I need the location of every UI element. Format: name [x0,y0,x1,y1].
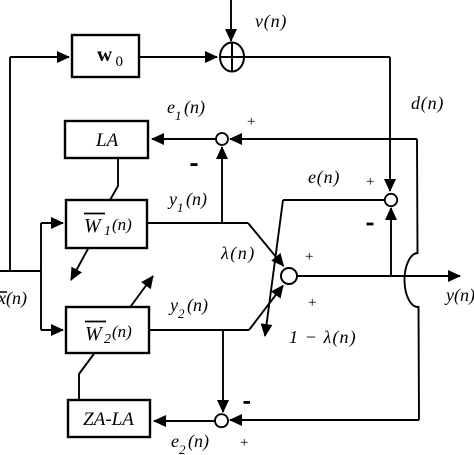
block W1 [66,200,147,248]
wire input branch vertical [40,223,42,330]
wire into W2 [41,329,63,331]
svg-text:d(n): d(n) [411,93,444,114]
svg-text:W: W [84,215,103,237]
svg-text:ZA-LA: ZA-LA [83,409,134,430]
wire y2 output [149,329,249,331]
label minus at e bottom [367,223,374,226]
svg-text:+: + [247,114,255,130]
svg-text:LA: LA [95,130,119,151]
svg-text:e2(n): e2(n) [171,431,209,455]
wire e(n) output leftwards [283,199,385,201]
wire arm lambda into combiner [248,223,284,266]
wire y1 output [147,222,248,224]
svg-text:+: + [308,295,316,311]
svg-text:y1(n): y1(n) [167,189,207,215]
combiner node [281,268,297,284]
wire d(n) vertical into e adder [389,57,391,191]
wire left vertical from w0 feed down to input line [9,57,11,271]
svg-text:+: + [305,249,313,265]
adder e1 [216,133,228,145]
wire W2 to ZA-LA connector [79,351,96,400]
wire y1 from e1 bottom [221,147,223,223]
wire input x(n) horizontal [0,270,41,272]
wire y2 junction down to e2 adder [222,330,224,412]
block ZA-LA [68,400,150,437]
block LA [65,121,148,158]
label minus at e1 [191,163,198,166]
svg-text:v(n): v(n) [255,11,287,32]
wire W2 adaptation arrow [131,276,153,306]
svg-text:x(n): x(n) [0,288,27,309]
svg-text:1: 1 [104,224,111,239]
svg-text:y2(n): y2(n) [168,295,208,321]
block W2 [66,307,149,353]
label minus at e2 [244,401,251,404]
svg-text:(n): (n) [112,322,132,341]
wire W1 adaptation arrow [71,247,89,280]
block w0 [72,35,139,77]
svg-text:e(n): e(n) [308,167,340,188]
wire v(n) input vertical [230,0,232,41]
wire feedback bottom horizontal into e2 adder [230,419,419,421]
wire e1 output into LA [152,138,216,140]
wire feedback vertical with hop over y(n) [404,139,419,420]
svg-text:(n): (n) [112,215,132,234]
wire y(n) junction up into e adder [390,208,392,276]
wire arm 1-lambda into combiner [249,286,283,331]
wire lambda adaptation long arrow [265,200,283,336]
svg-text:0: 0 [116,54,124,70]
wire left feed to w0 [10,56,69,58]
adder e2 [215,414,228,427]
wire LA to W1 connector [110,158,118,200]
svg-text:λ(n): λ(n) [220,243,256,264]
wire e2 output into ZA-LA [154,420,215,422]
wire d(n) feedback horizontal to e1 adder [230,138,417,140]
adder e [385,194,397,206]
svg-text:y(n): y(n) [444,285,474,306]
svg-text:+: + [366,174,374,190]
svg-text:W: W [85,323,104,345]
wire adder output to corner [244,56,390,58]
wire into W1 [41,222,63,224]
svg-text:w: w [97,42,113,66]
svg-text:e1(n): e1(n) [167,97,205,123]
adder A1 plus v(n) [220,43,244,72]
wire y(n) output [297,275,460,277]
wire w0 to adder [139,56,217,58]
svg-text:+: + [240,435,248,451]
svg-text:2: 2 [104,332,111,347]
svg-text:1 − λ(n): 1 − λ(n) [289,327,357,348]
